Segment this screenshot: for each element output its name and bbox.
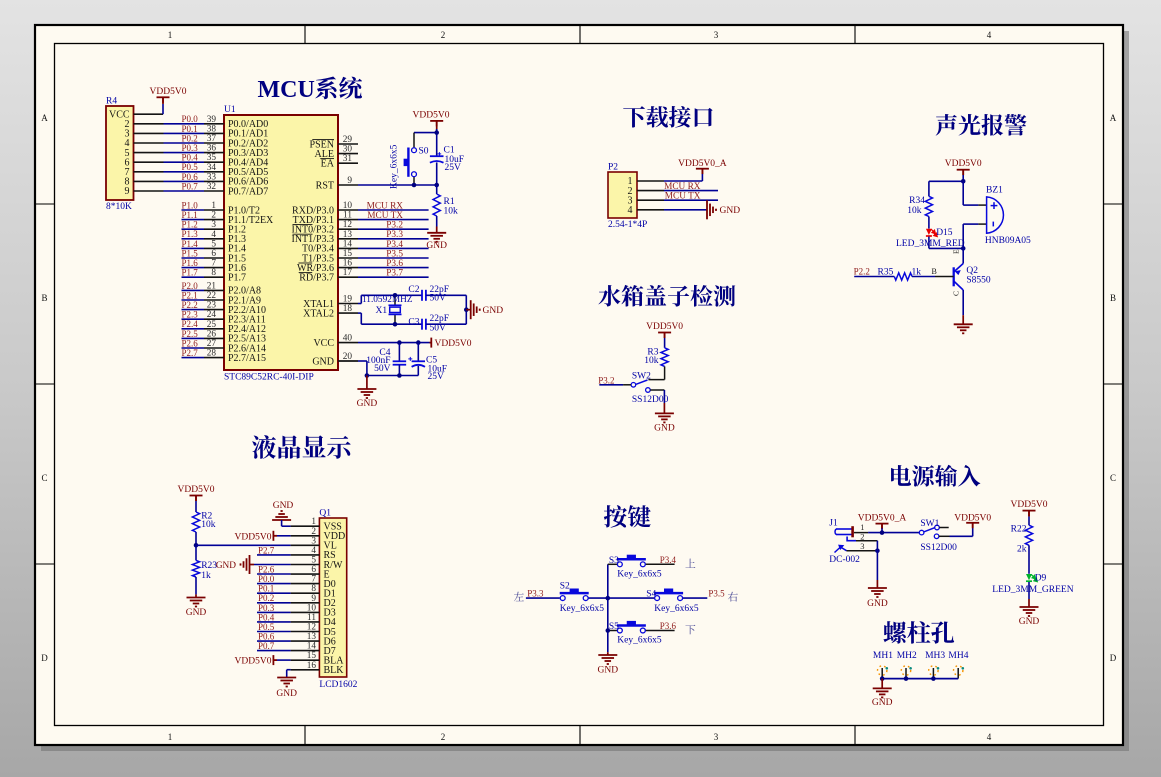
wires U1 port1 net labels bbox=[182, 209, 205, 211]
svg-text:P3.4: P3.4 bbox=[386, 240, 403, 250]
svg-text:P3.7: P3.7 bbox=[386, 269, 403, 279]
svg-text:1: 1 bbox=[168, 732, 173, 742]
svg-text:P2.6: P2.6 bbox=[258, 564, 275, 574]
title shengguang baojing bbox=[936, 114, 1027, 136]
wire VCC pin40 bbox=[358, 342, 430, 344]
capacitor C1 bbox=[430, 156, 444, 163]
svg-text:MH1: MH1 bbox=[873, 651, 893, 661]
svg-text:10: 10 bbox=[343, 201, 353, 211]
svg-text:14: 14 bbox=[307, 642, 317, 652]
svg-text:P0.3: P0.3 bbox=[258, 603, 275, 613]
svg-text:10: 10 bbox=[307, 603, 317, 613]
resistor R23 bbox=[195, 545, 197, 560]
wire divider to VL bbox=[196, 544, 291, 546]
svg-text:4: 4 bbox=[987, 732, 992, 742]
key S2 bbox=[526, 597, 560, 599]
svg-text:P0.1: P0.1 bbox=[258, 584, 274, 594]
svg-text:VDD5V0_A: VDD5V0_A bbox=[678, 159, 727, 169]
power VDD5V0_A (J1) bbox=[876, 524, 889, 530]
svg-text:10k: 10k bbox=[201, 520, 216, 530]
ground (tank) bbox=[663, 390, 665, 403]
svg-text:R22: R22 bbox=[1011, 524, 1027, 534]
svg-text:12: 12 bbox=[343, 220, 353, 230]
key S0 bbox=[413, 133, 415, 148]
resistor R34 bbox=[925, 196, 932, 216]
svg-text:VCC: VCC bbox=[313, 338, 334, 349]
U1 right pin stubs bbox=[338, 143, 358, 145]
key S5 bbox=[608, 630, 618, 632]
svg-text:MCU TX: MCU TX bbox=[367, 211, 403, 221]
svg-text:GND: GND bbox=[186, 608, 207, 618]
svg-text:P0.5: P0.5 bbox=[258, 622, 275, 632]
svg-text:14: 14 bbox=[343, 239, 353, 249]
ground (crystal) bbox=[466, 309, 470, 311]
svg-text:50V: 50V bbox=[430, 324, 447, 334]
header P2 bbox=[608, 172, 637, 218]
wire buzzer leads bbox=[962, 181, 964, 205]
wire key column bbox=[607, 564, 609, 652]
svg-text:24: 24 bbox=[207, 310, 217, 320]
svg-text:C: C bbox=[952, 291, 961, 296]
svg-text:P1.6: P1.6 bbox=[182, 258, 199, 268]
svg-text:11.0592MHZ: 11.0592MHZ bbox=[362, 295, 413, 305]
svg-text:Q2: Q2 bbox=[966, 266, 978, 276]
ground (mounting holes) bbox=[881, 679, 883, 689]
svg-text:15: 15 bbox=[307, 651, 317, 661]
svg-text:XTAL2: XTAL2 bbox=[303, 308, 334, 319]
svg-text:16: 16 bbox=[343, 259, 353, 269]
svg-text:P0.7: P0.7 bbox=[258, 641, 275, 651]
svg-text:GND: GND bbox=[720, 206, 741, 216]
svg-text:P0.2: P0.2 bbox=[258, 593, 274, 603]
svg-text:S5: S5 bbox=[609, 622, 619, 632]
svg-text:STC89C52RC-40I-DIP: STC89C52RC-40I-DIP bbox=[224, 373, 314, 383]
svg-text:3: 3 bbox=[311, 536, 316, 546]
svg-text:D9: D9 bbox=[1035, 574, 1047, 584]
svg-text:6: 6 bbox=[311, 565, 316, 575]
svg-text:7: 7 bbox=[211, 259, 216, 269]
svg-text:LED_3MM_GREEN: LED_3MM_GREEN bbox=[992, 585, 1073, 595]
power VDD5V0 (divider) bbox=[190, 496, 203, 502]
wire VDD to S0/C1 bbox=[436, 129, 438, 156]
svg-text:P3.5: P3.5 bbox=[708, 588, 725, 598]
svg-text:6: 6 bbox=[211, 249, 216, 259]
svg-text:P2.2: P2.2 bbox=[182, 300, 198, 310]
svg-text:B: B bbox=[932, 267, 937, 276]
wire crystal right rail bbox=[465, 295, 467, 324]
svg-text:33: 33 bbox=[207, 172, 217, 182]
svg-text:15: 15 bbox=[343, 249, 353, 259]
J1 pin3 contact bbox=[835, 546, 847, 553]
LED D15 bbox=[926, 229, 932, 235]
wire J1 gnd bbox=[876, 541, 878, 580]
svg-text:LCD1602: LCD1602 bbox=[319, 680, 357, 690]
svg-text:25V: 25V bbox=[445, 163, 462, 173]
svg-text:Q1: Q1 bbox=[319, 508, 331, 518]
power VDD5V0 (SW1) bbox=[966, 523, 979, 529]
svg-text:P3.3: P3.3 bbox=[527, 588, 544, 598]
svg-text:Key_6x6x5: Key_6x6x5 bbox=[617, 569, 662, 579]
svg-text:GND: GND bbox=[273, 501, 294, 511]
svg-text:P0.6: P0.6 bbox=[182, 172, 199, 182]
svg-text:P1.7: P1.7 bbox=[182, 268, 199, 278]
svg-text:R34: R34 bbox=[909, 196, 925, 206]
svg-text:GND: GND bbox=[598, 665, 619, 675]
wire P2 pin1 bbox=[664, 180, 702, 182]
svg-text:VDD5V0_A: VDD5V0_A bbox=[858, 514, 907, 524]
svg-text:18: 18 bbox=[343, 304, 353, 314]
svg-text:25: 25 bbox=[207, 320, 217, 330]
capacitor C3 bbox=[422, 319, 426, 330]
svg-text:GND: GND bbox=[872, 698, 893, 708]
svg-text:P3.2: P3.2 bbox=[598, 375, 614, 385]
svg-text:A: A bbox=[41, 113, 48, 123]
wire XTAL2 bbox=[358, 312, 361, 314]
svg-text:P1.3: P1.3 bbox=[182, 229, 199, 239]
svg-text:21: 21 bbox=[207, 281, 217, 291]
svg-text:U1: U1 bbox=[224, 105, 236, 115]
ground (J1) bbox=[868, 588, 887, 597]
svg-text:VDD5V0: VDD5V0 bbox=[435, 339, 472, 349]
svg-text:P0.4: P0.4 bbox=[182, 153, 199, 163]
svg-text:P2.7: P2.7 bbox=[182, 348, 199, 358]
svg-text:19: 19 bbox=[343, 295, 353, 305]
svg-text:P2.3: P2.3 bbox=[182, 310, 199, 320]
U1 right pin names bbox=[292, 139, 335, 367]
ground (keys) bbox=[607, 652, 609, 655]
capacitor C2 bbox=[422, 290, 426, 301]
svg-text:RD/P3.7: RD/P3.7 bbox=[299, 273, 334, 284]
wire MCU RX (P2) bbox=[664, 190, 718, 192]
LCD Q1 bbox=[319, 518, 346, 677]
svg-text:SW1: SW1 bbox=[920, 519, 939, 529]
U1 overlines bbox=[293, 139, 335, 272]
svg-text:1: 1 bbox=[211, 201, 216, 211]
switch SW2 bbox=[636, 380, 648, 384]
svg-text:C2: C2 bbox=[408, 285, 419, 295]
power VDD5V0 (pin40) bbox=[430, 338, 432, 348]
resistor R1 bbox=[436, 185, 438, 194]
svg-text:P1.5: P1.5 bbox=[182, 248, 199, 258]
svg-text:MH3: MH3 bbox=[925, 651, 945, 661]
svg-text:10k: 10k bbox=[907, 206, 922, 216]
svg-text:35: 35 bbox=[207, 153, 217, 163]
wire R3 to SW2 bbox=[664, 366, 666, 379]
svg-text:D: D bbox=[1110, 653, 1117, 663]
LED D9 bbox=[1026, 574, 1032, 580]
title yejing xianshi bbox=[252, 435, 351, 459]
svg-text:37: 37 bbox=[207, 134, 217, 144]
svg-text:MCU TX: MCU TX bbox=[665, 192, 701, 202]
svg-text:16: 16 bbox=[307, 661, 317, 671]
svg-text:9: 9 bbox=[311, 594, 316, 604]
svg-text:38: 38 bbox=[207, 124, 217, 134]
resistor network R4 bbox=[106, 106, 134, 200]
svg-text:50V: 50V bbox=[374, 364, 391, 374]
svg-text:VDD5V0: VDD5V0 bbox=[1011, 500, 1048, 510]
svg-text:A: A bbox=[1110, 113, 1117, 123]
title dianyuan shuru bbox=[891, 465, 980, 487]
svg-text:28: 28 bbox=[207, 349, 217, 359]
power VDD5V0 (LED) bbox=[1023, 511, 1036, 516]
svg-text:Key_6x6x5: Key_6x6x5 bbox=[390, 144, 400, 189]
svg-text:GND: GND bbox=[426, 241, 447, 251]
svg-text:EA: EA bbox=[321, 159, 335, 170]
svg-text:SS12D00: SS12D00 bbox=[920, 543, 957, 553]
svg-text:C3: C3 bbox=[408, 318, 419, 328]
svg-text:P2.0: P2.0 bbox=[182, 281, 199, 291]
svg-text:3: 3 bbox=[714, 30, 719, 40]
svg-text:11: 11 bbox=[307, 613, 316, 623]
svg-text:P2.4: P2.4 bbox=[182, 319, 199, 329]
svg-text:P0.2: P0.2 bbox=[182, 133, 198, 143]
ground (pin20) bbox=[366, 376, 368, 390]
wire MCU TX (P2) bbox=[664, 199, 718, 201]
resistor R2 bbox=[192, 512, 199, 532]
svg-text:5: 5 bbox=[311, 556, 316, 566]
wire GND pin20 bbox=[338, 360, 358, 362]
svg-text:C: C bbox=[1110, 473, 1116, 483]
svg-text:P1.0: P1.0 bbox=[182, 200, 199, 210]
ground (Q2) bbox=[962, 308, 964, 315]
key S4 bbox=[608, 597, 655, 599]
svg-text:50V: 50V bbox=[430, 294, 447, 304]
power VDD5V0 (R4) bbox=[157, 97, 170, 103]
svg-text:BLK: BLK bbox=[324, 665, 345, 676]
key S3 bbox=[608, 563, 618, 565]
J1 pin1 wire bbox=[854, 532, 868, 534]
title xiazai jiekou bbox=[623, 106, 712, 128]
svg-text:VDD5V0: VDD5V0 bbox=[150, 87, 187, 97]
resistor R3 bbox=[661, 348, 668, 367]
svg-text:P3.2: P3.2 bbox=[386, 221, 403, 231]
svg-text:9: 9 bbox=[347, 176, 352, 186]
svg-text:VDD5V0: VDD5V0 bbox=[413, 110, 450, 120]
svg-text:2.54-1*4P: 2.54-1*4P bbox=[608, 220, 647, 230]
power VDD5V0_A (P2) bbox=[696, 169, 709, 175]
buzzer BZ1 bbox=[987, 197, 1004, 233]
svg-text:P3.4: P3.4 bbox=[660, 555, 677, 565]
svg-text:VDD5V0: VDD5V0 bbox=[646, 322, 683, 332]
svg-text:VDD5V0: VDD5V0 bbox=[945, 159, 982, 169]
svg-text:Key_6x6x5: Key_6x6x5 bbox=[617, 636, 662, 646]
svg-text:23: 23 bbox=[207, 301, 217, 311]
svg-text:GND: GND bbox=[216, 561, 236, 571]
wire RST bbox=[358, 184, 437, 186]
svg-text:P0.0: P0.0 bbox=[182, 114, 199, 124]
svg-text:D: D bbox=[41, 653, 48, 663]
svg-text:P3.3: P3.3 bbox=[386, 230, 403, 240]
svg-text:8: 8 bbox=[311, 584, 316, 594]
svg-text:MCU RX: MCU RX bbox=[664, 182, 701, 192]
wire LED to emitter bbox=[929, 247, 963, 249]
svg-text:P3.6: P3.6 bbox=[660, 621, 677, 631]
svg-text:P2.7/A15: P2.7/A15 bbox=[228, 353, 266, 364]
power VDD5V0 (reset) bbox=[430, 121, 443, 127]
svg-text:9: 9 bbox=[125, 186, 130, 197]
svg-text:3: 3 bbox=[714, 732, 719, 742]
svg-text:GND: GND bbox=[483, 306, 504, 316]
svg-text:13: 13 bbox=[343, 230, 353, 240]
svg-text:P0.1: P0.1 bbox=[182, 124, 198, 134]
svg-text:4: 4 bbox=[987, 30, 992, 40]
svg-text:VDD5V0: VDD5V0 bbox=[954, 514, 991, 524]
svg-text:4: 4 bbox=[211, 230, 216, 240]
svg-text:27: 27 bbox=[207, 339, 217, 349]
power VDD5V0 (tank) bbox=[658, 333, 671, 339]
svg-text:RST: RST bbox=[316, 180, 334, 191]
svg-text:S3: S3 bbox=[609, 556, 619, 566]
wires P0 data bus to LCD bbox=[257, 583, 291, 585]
capacitor C4 bbox=[398, 343, 400, 362]
resistor R22 bbox=[1025, 525, 1032, 545]
svg-text:LED_3MM_RED: LED_3MM_RED bbox=[896, 239, 965, 249]
wires R4 to U1 port0 bbox=[134, 123, 164, 125]
wires U1 port2 net labels bbox=[182, 289, 205, 291]
ground (divider) bbox=[195, 577, 197, 594]
svg-text:P2: P2 bbox=[608, 163, 618, 173]
capacitor C5 bbox=[417, 343, 419, 362]
svg-text:17: 17 bbox=[343, 268, 353, 278]
wire mounting hole rail bbox=[882, 678, 958, 680]
svg-text:4: 4 bbox=[311, 546, 316, 556]
svg-text:8*10K: 8*10K bbox=[106, 202, 132, 212]
wire XTAL1 bbox=[358, 303, 361, 305]
svg-text:P1.2: P1.2 bbox=[182, 220, 198, 230]
svg-text:32: 32 bbox=[207, 182, 217, 192]
U1 left pin names bbox=[228, 119, 274, 364]
svg-text:Key_6x6x5: Key_6x6x5 bbox=[560, 604, 605, 614]
svg-text:MH2: MH2 bbox=[897, 651, 917, 661]
svg-text:R4: R4 bbox=[106, 97, 117, 107]
svg-text:X1: X1 bbox=[376, 306, 388, 316]
svg-text:MH4: MH4 bbox=[948, 651, 968, 661]
svg-text:13: 13 bbox=[307, 632, 317, 642]
svg-text:GND: GND bbox=[1019, 617, 1040, 627]
svg-text:P3.5: P3.5 bbox=[386, 249, 403, 259]
title anjian bbox=[604, 505, 651, 528]
title luozhu kong bbox=[883, 621, 954, 644]
svg-text:10k: 10k bbox=[644, 356, 659, 366]
svg-text:11: 11 bbox=[343, 211, 352, 221]
svg-text:P0.6: P0.6 bbox=[258, 632, 275, 642]
wire VCC R4 to VDD5V0 bbox=[134, 113, 164, 115]
svg-text:S4: S4 bbox=[646, 589, 656, 599]
svg-text:25V: 25V bbox=[428, 372, 445, 382]
svg-text:P1.4: P1.4 bbox=[182, 239, 199, 249]
svg-text:P2.6: P2.6 bbox=[182, 338, 199, 348]
svg-text:C1: C1 bbox=[444, 145, 455, 155]
svg-text:P0.5: P0.5 bbox=[182, 162, 199, 172]
svg-text:R35: R35 bbox=[878, 267, 894, 277]
svg-text:31: 31 bbox=[343, 154, 353, 164]
Q1 pins bbox=[324, 522, 346, 677]
svg-text:VDD5V0: VDD5V0 bbox=[178, 485, 215, 495]
svg-text:MCU: MCU bbox=[258, 77, 315, 103]
ground (reset) bbox=[436, 227, 438, 233]
svg-text:P2.1: P2.1 bbox=[182, 290, 198, 300]
svg-text:C: C bbox=[41, 473, 47, 483]
svg-text:2: 2 bbox=[211, 211, 216, 221]
svg-text:GND: GND bbox=[654, 424, 675, 434]
svg-text:S2: S2 bbox=[560, 581, 570, 591]
svg-text:SS12D00: SS12D00 bbox=[632, 395, 669, 405]
svg-text:D15: D15 bbox=[936, 228, 953, 238]
svg-text:29: 29 bbox=[343, 135, 353, 145]
wire alarm top rail bbox=[929, 180, 963, 182]
svg-text:1k: 1k bbox=[201, 571, 211, 581]
svg-text:2: 2 bbox=[441, 732, 446, 742]
svg-text:1: 1 bbox=[168, 30, 173, 40]
svg-text:P2.5: P2.5 bbox=[182, 329, 199, 339]
svg-text:B: B bbox=[41, 293, 47, 303]
svg-text:7: 7 bbox=[311, 575, 316, 585]
MCU U1 STC89C52RC bbox=[224, 115, 338, 370]
svg-text:5: 5 bbox=[211, 239, 216, 249]
svg-text:22: 22 bbox=[207, 291, 217, 301]
wire decoupling rail bbox=[367, 375, 418, 377]
svg-text:30: 30 bbox=[343, 145, 353, 155]
svg-text:3: 3 bbox=[211, 220, 216, 230]
svg-text:J1: J1 bbox=[829, 518, 838, 528]
node VL divider bbox=[194, 543, 199, 548]
svg-text:B: B bbox=[1110, 293, 1116, 303]
svg-text:GND: GND bbox=[312, 356, 334, 367]
svg-text:P0.3: P0.3 bbox=[182, 143, 199, 153]
wires U1 port3 net labels bbox=[358, 209, 429, 211]
wire P2.7 (RS) bbox=[257, 554, 291, 556]
svg-text:26: 26 bbox=[207, 329, 217, 339]
svg-text:DC-002: DC-002 bbox=[829, 555, 860, 565]
svg-text:P0.0: P0.0 bbox=[258, 574, 275, 584]
svg-text:GND: GND bbox=[357, 399, 378, 409]
svg-text:40: 40 bbox=[343, 334, 353, 344]
svg-text:36: 36 bbox=[207, 144, 217, 154]
J1 pin2 contact bbox=[847, 537, 856, 541]
svg-text:VDD5V0: VDD5V0 bbox=[235, 532, 272, 542]
inner border bbox=[55, 44, 1104, 726]
svg-text:4: 4 bbox=[628, 205, 633, 216]
svg-text:S0: S0 bbox=[419, 147, 429, 157]
crystal X1 bbox=[394, 295, 396, 305]
svg-text:P2.2: P2.2 bbox=[854, 267, 870, 277]
svg-text:P0.7: P0.7 bbox=[182, 181, 199, 191]
svg-text:GND: GND bbox=[276, 689, 297, 699]
svg-text:BZ1: BZ1 bbox=[986, 186, 1003, 196]
svg-text:P1.1: P1.1 bbox=[182, 210, 198, 220]
svg-text:P0.7/AD7: P0.7/AD7 bbox=[228, 186, 268, 197]
svg-text:8: 8 bbox=[211, 268, 216, 278]
ground (BLK pin16) bbox=[287, 669, 291, 671]
title shuixiang gaizi jiance bbox=[598, 285, 735, 307]
svg-text:34: 34 bbox=[207, 163, 217, 173]
ground (LED) bbox=[1028, 582, 1030, 599]
svg-text:P2.7: P2.7 bbox=[258, 545, 275, 555]
svg-text:3: 3 bbox=[860, 541, 864, 551]
switch SW1 bbox=[919, 530, 924, 535]
svg-text:Key_6x6x5: Key_6x6x5 bbox=[654, 604, 699, 614]
svg-text:HNB09A05: HNB09A05 bbox=[985, 236, 1031, 246]
wire P2 pin4 / ground bbox=[664, 209, 707, 211]
svg-text:R1: R1 bbox=[444, 197, 455, 207]
svg-text:S8550: S8550 bbox=[966, 276, 991, 286]
svg-text:P0.4: P0.4 bbox=[258, 612, 275, 622]
svg-text:P3.6: P3.6 bbox=[386, 259, 403, 269]
svg-text:2k: 2k bbox=[1017, 544, 1027, 554]
svg-text:P1.7: P1.7 bbox=[228, 273, 246, 284]
svg-text:1: 1 bbox=[311, 517, 316, 527]
svg-text:10k: 10k bbox=[444, 207, 459, 217]
